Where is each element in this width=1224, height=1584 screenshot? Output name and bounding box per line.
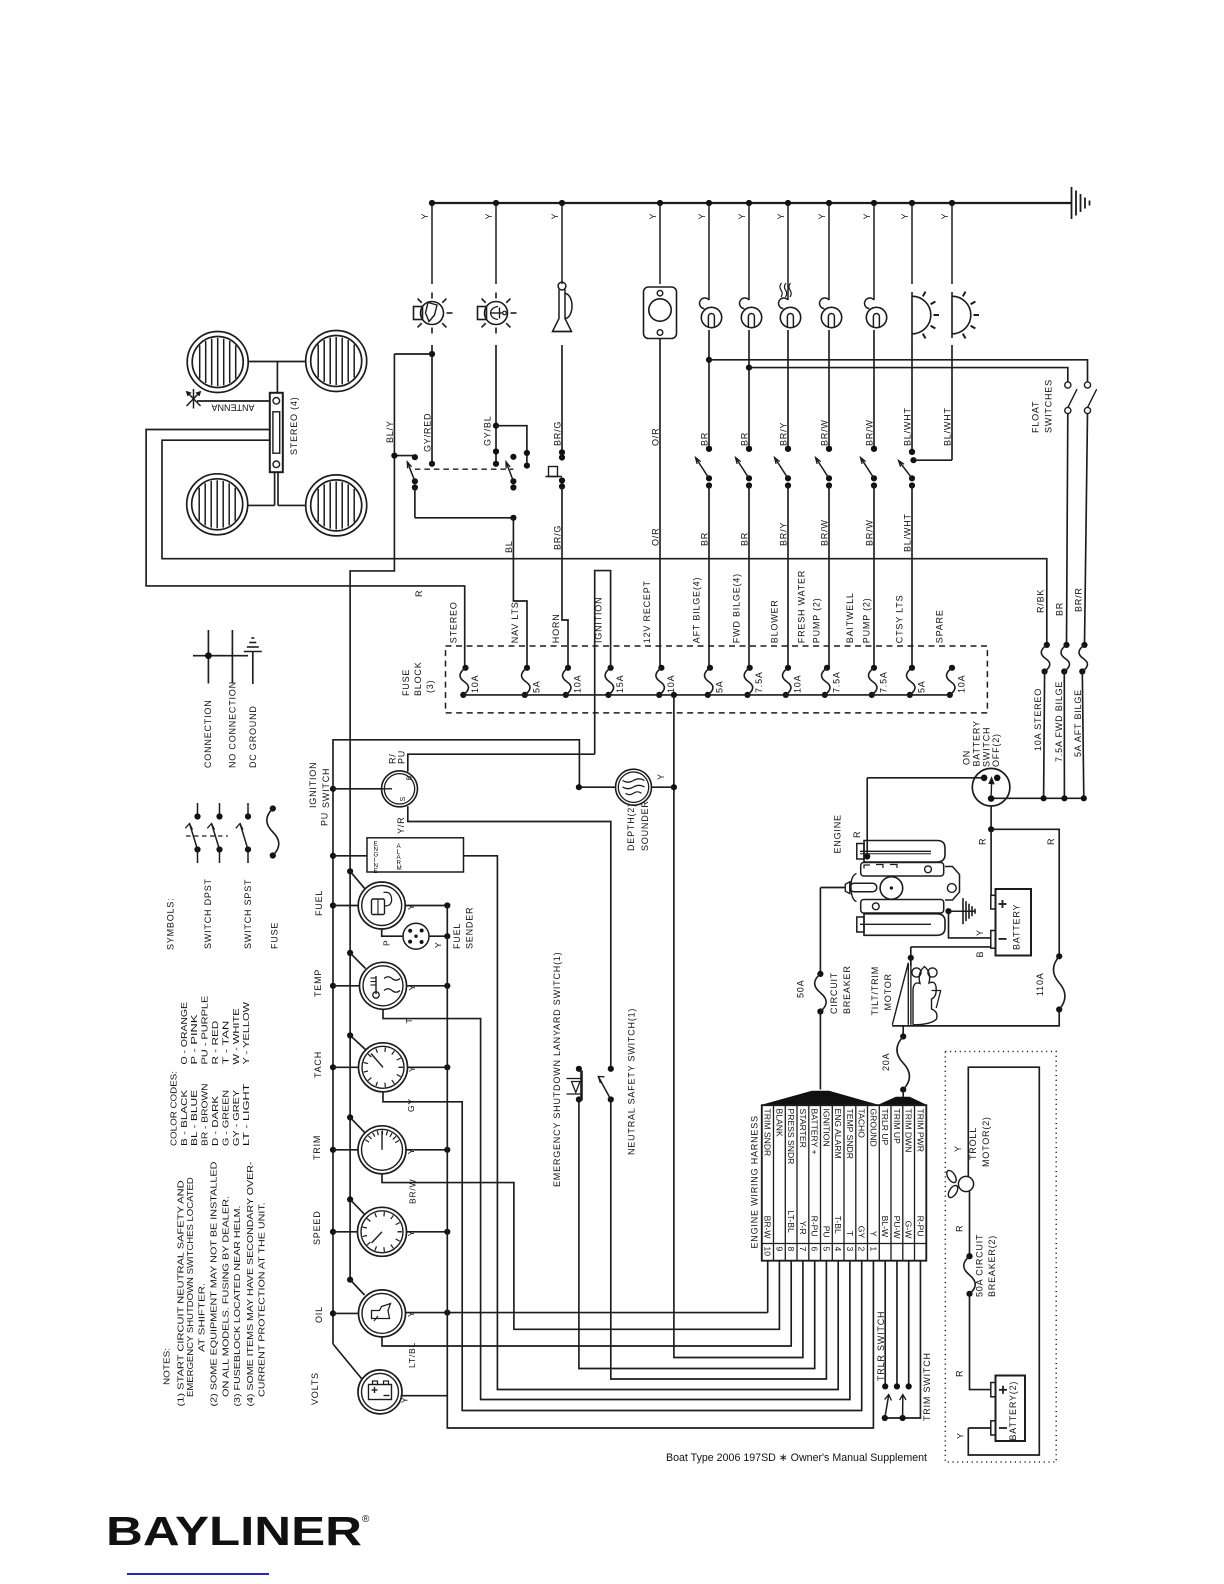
wire speakers top pair [249, 361, 306, 363]
switch TRLR [885, 1395, 889, 1419]
fuse 7.5A x=749 [747, 665, 753, 671]
svg-text:Y: Y [420, 213, 430, 220]
symbol no connection [231, 630, 233, 684]
svg-text:AT SHIFTER.: AT SHIFTER. [197, 1283, 207, 1352]
svg-text:ON ALL MODELS. FUSING BY DEALE: ON ALL MODELS. FUSING BY DEALER. [221, 1196, 231, 1397]
svg-text:6: 6 [810, 1247, 820, 1252]
switch x=709 [706, 446, 712, 452]
svg-text:BATTERY +: BATTERY + [810, 1109, 820, 1155]
svg-text:R: R [414, 590, 424, 597]
engine powerhead bottom bar [864, 914, 945, 936]
fuse 10A STEREO inline [1044, 642, 1050, 648]
battery main box [996, 889, 1032, 956]
svg-text:BR/G: BR/G [553, 525, 563, 550]
wire BR/W sender line [382, 1174, 779, 1330]
switch nav-lts dimmer A [412, 454, 418, 460]
engine bar 2 [861, 863, 944, 877]
svg-text:Y: Y [975, 929, 985, 936]
svg-text:Y/R: Y/R [396, 817, 406, 834]
wire BR/G to HORN fuse [562, 487, 568, 668]
svg-text:SWITCH SPST: SWITCH SPST [243, 879, 253, 949]
svg-text:VOLTS: VOLTS [310, 1372, 320, 1405]
wire SPEED right [407, 1231, 448, 1233]
svg-text:TEMP SNDR: TEMP SNDR [845, 1109, 855, 1159]
fuse 10A x=661 [658, 665, 664, 671]
wire PU diag VOLTS [333, 1344, 362, 1379]
wire Y drop x=952 [949, 200, 955, 206]
svg-text:PRESS SNDR: PRESS SNDR [786, 1109, 796, 1165]
svg-text:W - WHITE: W - WHITE [231, 1008, 241, 1065]
wire BR to fuse x=709 [708, 486, 710, 668]
wire BR/Y drop x=788 [787, 330, 789, 449]
engine clamp marks [864, 865, 870, 869]
symbol fuse legend [270, 805, 276, 811]
svg-text:R: R [978, 838, 988, 845]
svg-text:7.5A: 7.5A [832, 671, 842, 693]
wire BR/W drop x=874 [873, 330, 875, 449]
svg-text:TRIM UP: TRIM UP [892, 1109, 902, 1145]
svg-text:FUEL: FUEL [314, 890, 324, 916]
fuel sender [403, 923, 429, 949]
fuse 10A x=788 [785, 665, 791, 671]
svg-text:T: T [404, 1018, 414, 1024]
neutral safety switch [608, 1066, 614, 1072]
wire Y drop x=912 [909, 200, 915, 206]
ignition switch [382, 771, 418, 807]
svg-text:Y: Y [648, 213, 658, 220]
svg-text:PU: PU [821, 1226, 831, 1238]
svg-text:NAV LTS: NAV LTS [510, 601, 520, 643]
svg-text:(3): (3) [425, 680, 435, 693]
wire R/PU ignition to fuse [408, 754, 595, 771]
svg-text:GY - GREY: GY - GREY [231, 1089, 241, 1146]
svg-text:BATTERY(2): BATTERY(2) [1008, 1381, 1018, 1441]
svg-text:MOTOR(2): MOTOR(2) [981, 1116, 991, 1167]
wire BR/G drop [561, 345, 563, 452]
svg-text:SOUNDER: SOUNDER [640, 800, 650, 851]
wire inline fuses to battery switch [991, 797, 1084, 799]
wire sounder right [652, 786, 674, 788]
wire sounder left [579, 786, 616, 788]
svg-text:O/R: O/R [651, 528, 661, 546]
wire Y bus to harness col1 [447, 906, 873, 1429]
svg-text:Y: Y [406, 904, 416, 910]
svg-text:Y: Y [407, 1066, 417, 1072]
junction main feed drop [671, 692, 677, 698]
svg-text:Y: Y [697, 213, 707, 220]
wire alarm left [330, 853, 336, 859]
svg-text:R: R [955, 1370, 965, 1377]
wire PU to ignition [330, 786, 336, 792]
engine powerhead top bar [864, 841, 945, 863]
wire trim dwn col [908, 1261, 910, 1387]
wire BR/W drop x=829 [828, 330, 830, 449]
svg-text:TRIM SNDR: TRIM SNDR [763, 1109, 773, 1157]
wire Y drop x=660 [657, 200, 663, 206]
horn icon [558, 282, 566, 290]
svg-text:R: R [852, 831, 862, 838]
wire battery2 - return [968, 1427, 991, 1429]
wire TRIM right [407, 1149, 448, 1151]
wire GY sender line [383, 1092, 862, 1411]
svg-text:BLOWER: BLOWER [770, 599, 780, 643]
switch TRIM [902, 1395, 904, 1419]
fuse 7.5A x=874 [871, 665, 877, 671]
wire antenna lead [197, 400, 270, 402]
svg-text:BR/W: BR/W [820, 519, 830, 546]
switch x=829 [826, 446, 832, 452]
wire BR drop x=749 [748, 330, 750, 449]
wire fuse block bus [463, 694, 952, 696]
svg-text:Y: Y [406, 1230, 416, 1236]
svg-text:STARTER: STARTER [798, 1109, 808, 1148]
wire Y drop x=788 [785, 200, 791, 206]
fuse 10A x=465 [462, 665, 468, 671]
wire BR to fuse x=749 [748, 486, 750, 668]
svg-text:BR - BROWN: BR - BROWN [200, 1083, 210, 1146]
trim connector hood (filled) [878, 1097, 926, 1105]
svg-text:5A: 5A [715, 680, 725, 693]
wire BL/WHT to CTSY fuse [911, 486, 913, 668]
blower vent squiggles [780, 283, 782, 297]
wire Y diag TEMP [347, 950, 353, 956]
svg-text:COLOR CODES:: COLOR CODES: [168, 1071, 178, 1146]
svg-text:Y: Y [484, 213, 494, 220]
wire alarm to harness col4 [464, 856, 839, 1390]
svg-text:7.5A FWD BILGE: 7.5A FWD BILGE [1054, 681, 1064, 762]
wire sender to Y bus [429, 935, 447, 937]
engine ground lug [945, 908, 951, 914]
symbol connection [207, 630, 209, 684]
svg-text:BAITWELL: BAITWELL [845, 592, 855, 643]
wire troll loop [968, 1067, 1039, 1455]
wire emergency switch to harness col6 [579, 1100, 815, 1369]
svg-text:BAYLINER: BAYLINER [106, 1508, 362, 1554]
svg-text:®: ® [362, 1514, 370, 1525]
svg-text:110A: 110A [1035, 972, 1045, 996]
svg-text:TROLL: TROLL [968, 1127, 978, 1160]
wire to 110A breaker [991, 829, 1059, 956]
svg-text:4: 4 [833, 1247, 843, 1252]
svg-text:SPARE: SPARE [935, 609, 945, 643]
svg-text:FWD BILGE(4): FWD BILGE(4) [732, 573, 742, 643]
svg-text:PUMP (2): PUMP (2) [862, 597, 872, 643]
stereo head unit [270, 393, 283, 472]
svg-text:Y: Y [900, 213, 910, 220]
svg-text:Y: Y [433, 942, 443, 948]
breaker 50A(2) [966, 1253, 972, 1259]
wire Y diag OIL [347, 1277, 353, 1283]
svg-text:GY: GY [857, 1226, 867, 1239]
wire FUEL right [405, 905, 447, 907]
svg-text:BLANK: BLANK [774, 1109, 784, 1137]
engine alarm box [367, 838, 464, 872]
wire TACH right [408, 1066, 448, 1068]
svg-text:BR: BR [740, 432, 750, 446]
pushbutton horn switch [546, 476, 563, 478]
svg-text:E: E [374, 868, 378, 875]
svg-text:TACHO: TACHO [857, 1109, 867, 1139]
float switch fwd [1065, 382, 1071, 388]
svg-text:TRIM: TRIM [312, 1135, 322, 1160]
svg-text:Y: Y [817, 213, 827, 220]
engine prop shaft [845, 882, 850, 894]
engine left cowl [851, 874, 857, 902]
svg-text:10A: 10A [573, 675, 583, 693]
speaker bottom-right [306, 475, 367, 536]
wire battery switch to battery + [990, 829, 992, 895]
speaker top-right [306, 331, 367, 392]
svg-text:S: S [400, 796, 407, 801]
svg-text:BL/Y: BL/Y [385, 420, 395, 443]
svg-text:BR/W: BR/W [865, 519, 875, 546]
wire BL/Y riser [394, 353, 432, 355]
depth sounder [616, 769, 652, 805]
svg-text:10A: 10A [666, 675, 676, 693]
wire prop to breaker [969, 1192, 971, 1257]
svg-text:BR/Y: BR/Y [779, 422, 789, 446]
svg-text:Y-R: Y-R [798, 1221, 808, 1235]
gauge VOLTS [358, 1370, 402, 1414]
wire BL to NAV LTS fuse [513, 518, 527, 668]
svg-text:SENDER: SENDER [465, 907, 475, 949]
engine gearcase right [945, 867, 960, 901]
ground symbol (bus end) [1071, 187, 1073, 219]
logo underline [127, 1573, 269, 1575]
svg-text:G - GREEN: G - GREEN [220, 1090, 230, 1146]
wire trim up col [896, 1261, 898, 1387]
svg-text:FUEL: FUEL [452, 923, 462, 949]
engine bar 3 [861, 900, 944, 914]
ground symbol engine [962, 898, 964, 924]
svg-text:Y: Y [656, 773, 666, 780]
wire motor bottom [892, 1025, 1059, 1027]
speaker top-left [187, 332, 248, 393]
svg-text:IGNITION: IGNITION [821, 1109, 831, 1147]
wire Y diag SPEED [347, 1196, 353, 1202]
svg-text:T - TAN: T - TAN [220, 1021, 230, 1065]
svg-text:12V RECEPT: 12V RECEPT [642, 580, 652, 643]
svg-text:GY: GY [406, 1098, 416, 1112]
wire fwd-bilge float branch [746, 365, 752, 371]
harness connector body [762, 1105, 927, 1261]
harness connector hood (filled) [762, 1091, 879, 1105]
svg-text:P - PINK: P - PINK [189, 1014, 199, 1065]
svg-text:BREAKER(2): BREAKER(2) [987, 1235, 997, 1297]
battery + terminal tab [991, 895, 996, 909]
fuse 7.5A x=827 [824, 665, 830, 671]
wire BL/WHT ctsy drop [911, 338, 913, 452]
fuse 110A [1056, 953, 1062, 959]
svg-text:BR/W: BR/W [408, 1179, 418, 1204]
wire O/R drop to 12V RECEPT fuse [659, 339, 661, 668]
wire R battery switch to engine [867, 777, 984, 779]
pump icon x=829 [828, 284, 830, 300]
svg-text:GY/RED: GY/RED [423, 413, 433, 452]
wire GY/BL drop [495, 345, 497, 464]
fuse 7.5A FWD BILGE inline [1063, 642, 1069, 648]
dashed gang link (DPST) [415, 468, 514, 470]
svg-text:B: B [975, 951, 985, 958]
svg-text:PU - PURPLE: PU - PURPLE [200, 995, 210, 1064]
svg-text:BR: BR [700, 532, 710, 546]
svg-text:BATTERY: BATTERY [1012, 904, 1022, 950]
lamp CTSY lights icon [911, 292, 913, 338]
svg-text:3: 3 [845, 1247, 855, 1252]
svg-text:SPEED: SPEED [312, 1210, 322, 1245]
wire GY/BL branch [496, 426, 527, 466]
svg-text:5A AFT BILGE: 5A AFT BILGE [1073, 689, 1083, 757]
svg-text:BL-W: BL-W [880, 1216, 890, 1238]
wire PU bus top [333, 740, 579, 1344]
pump icon x=749 [748, 284, 750, 300]
battery2 + tab [991, 1383, 996, 1397]
svg-text:5: 5 [821, 1247, 831, 1252]
svg-text:CIRCUIT: CIRCUIT [829, 972, 839, 1014]
wire Y diag TACH [347, 1032, 353, 1038]
battery - terminal tab [991, 931, 996, 949]
svg-text:D - DARK: D - DARK [210, 1095, 220, 1146]
emergency shutdown lanyard switch [576, 1066, 582, 1072]
wire BR/Y to fuse x=788 [787, 486, 789, 668]
svg-text:Y: Y [737, 213, 747, 220]
svg-text:SWITCH: SWITCH [982, 727, 992, 767]
symbol switch SPST [247, 803, 249, 814]
troll motor prop [945, 1169, 958, 1184]
svg-text:2: 2 [857, 1247, 867, 1252]
symbol dc ground [252, 652, 254, 685]
wire stereo enclosure inner loop / R feed [162, 440, 1047, 645]
battery2 - tab [991, 1421, 996, 1435]
switch ctsy lts [909, 449, 915, 455]
svg-text:Y: Y [400, 1397, 410, 1403]
svg-text:8: 8 [786, 1247, 796, 1252]
wire trim pwr col [885, 1261, 921, 1418]
wire PU to FUEL [330, 902, 336, 908]
wire 110A to tilt/trim motor [892, 1010, 1059, 1026]
switch nav-lts dimmer B [510, 454, 516, 460]
svg-text:7: 7 [798, 1247, 808, 1252]
wire Y drop x=709 [706, 200, 712, 206]
gauge OIL [359, 1290, 406, 1337]
wire dimmer link [415, 517, 514, 519]
wire PU to TEMP [330, 983, 336, 989]
wire gauge to sender [382, 929, 403, 936]
wire aft-bilge float branch [706, 357, 712, 363]
wire Y diag FUEL [347, 868, 353, 874]
svg-text:EMERGENCY SHUTDOWN SWITCHES LO: EMERGENCY SHUTDOWN SWITCHES LOCATED [185, 1177, 195, 1397]
fuse 10A x=952 [949, 665, 955, 671]
battery switch [972, 768, 1010, 806]
pump icon x=709 [708, 284, 710, 300]
svg-text:BL - BLUE: BL - BLUE [189, 1089, 199, 1146]
svg-text:T-BL: T-BL [833, 1216, 843, 1234]
svg-text:GY/BL: GY/BL [483, 415, 493, 446]
svg-text:7.5A: 7.5A [879, 671, 889, 693]
svg-text:B: B [407, 775, 414, 780]
svg-text:10: 10 [763, 1247, 773, 1257]
wire BR/W to fuse x=829 [828, 486, 830, 668]
svg-text:STEREO (4): STEREO (4) [289, 396, 299, 455]
svg-text:R-PU: R-PU [915, 1216, 925, 1237]
svg-text:BR/Y: BR/Y [779, 522, 789, 546]
wire PU to TRIM [330, 1147, 336, 1153]
svg-text:GROUND: GROUND [868, 1109, 878, 1147]
svg-text:ENGINE: ENGINE [833, 814, 843, 853]
svg-text:FUSE: FUSE [401, 669, 411, 696]
wire B battery neg to tilt motor [911, 946, 991, 948]
switch x=749 [746, 446, 752, 452]
wire T sender line [383, 1009, 850, 1399]
wire speakers bottom pair [247, 504, 274, 506]
svg-text:20A: 20A [881, 1053, 891, 1071]
svg-text:BR-W: BR-W [763, 1216, 773, 1240]
gauge TACH [359, 1043, 408, 1092]
switch x=874 [871, 446, 877, 452]
wire BR/R float to fuse [1085, 414, 1088, 645]
svg-text:15A: 15A [615, 675, 625, 693]
svg-text:BL/WHT: BL/WHT [903, 513, 913, 552]
wire Y drop x=432 [429, 200, 435, 206]
svg-text:NOTES:: NOTES: [161, 1348, 171, 1385]
svg-text:STEREO: STEREO [449, 601, 459, 643]
wire GY/RED drop [431, 345, 433, 464]
svg-text:5A: 5A [917, 680, 927, 693]
svg-text:Y: Y [406, 1311, 416, 1317]
wire neutral safety to harness col5 [611, 1100, 827, 1380]
svg-text:Y: Y [953, 1145, 963, 1152]
svg-text:Y: Y [407, 984, 417, 990]
svg-text:EMERGENCY SHUTDOWN LANYARD SWI: EMERGENCY SHUTDOWN LANYARD SWITCH(1) [552, 952, 562, 1187]
wire Y engine to battery neg [949, 911, 991, 938]
wire VOLTS right [401, 1395, 448, 1397]
svg-text:IGNITION: IGNITION [594, 597, 604, 643]
breaker 50A [817, 971, 823, 977]
wire engine to 50A breaker [820, 887, 845, 889]
svg-text:M: M [397, 865, 402, 872]
engine flywheel [880, 877, 903, 900]
svg-text:TEMP: TEMP [313, 969, 323, 997]
pin number divider [762, 1243, 927, 1245]
svg-text:R - RED: R - RED [210, 1021, 220, 1065]
svg-text:1: 1 [868, 1247, 878, 1252]
svg-text:R/BK: R/BK [1036, 589, 1046, 613]
wire Y diag TRIM [347, 1114, 353, 1120]
svg-text:BL: BL [504, 540, 514, 553]
svg-text:Y: Y [776, 213, 786, 220]
svg-text:TRIM DWN: TRIM DWN [904, 1109, 914, 1153]
speaker bottom-left [187, 474, 248, 535]
svg-text:Y: Y [406, 1148, 416, 1154]
svg-text:BATTERY: BATTERY [972, 720, 982, 766]
svg-text:P: P [382, 940, 392, 946]
svg-text:B - BLACK: B - BLACK [179, 1089, 189, 1146]
svg-text:10A: 10A [793, 675, 803, 693]
pump icon x=874 [873, 284, 875, 300]
svg-text:Y: Y [940, 213, 950, 220]
gauge SPEED [358, 1207, 407, 1256]
wire TEMP right [407, 985, 448, 987]
svg-text:AFT BILGE(4): AFT BILGE(4) [692, 577, 702, 643]
svg-text:SYMBOLS:: SYMBOLS: [166, 898, 176, 950]
wire BR/W to fuse x=874 [873, 486, 875, 668]
svg-text:BR/W: BR/W [820, 419, 830, 446]
svg-text:CURRENT PROTECTION AT THE UNIT: CURRENT PROTECTION AT THE UNIT. [256, 1202, 266, 1397]
svg-text:TRLR UP: TRLR UP [880, 1109, 890, 1146]
svg-text:R: R [955, 1225, 965, 1232]
svg-text:Y: Y [956, 1432, 966, 1439]
svg-text:FUSE: FUSE [270, 922, 280, 949]
